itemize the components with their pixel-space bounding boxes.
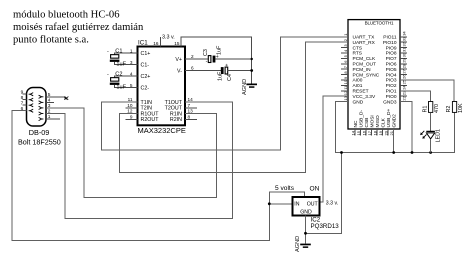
BLUETOOTH1 left pin numbers 1-13 — [343, 33, 348, 101]
svg-text:CSB: CSB — [364, 118, 370, 128]
wire module PIO3 to R2 — [400, 80, 454, 102]
svg-text:PIO6: PIO6 — [386, 62, 397, 68]
wire net DB9 pin2 to IC1 T1OUT — [46, 102, 233, 219]
capacitor C1 — [107, 48, 138, 67]
BLUETOOTH1 right pin stubs — [400, 37, 407, 96]
svg-text:3.3 v.: 3.3 v. — [326, 201, 338, 207]
BLUETOOTH1 left pin stubs — [341, 48, 348, 91]
svg-text:24: 24 — [402, 85, 407, 90]
connector DB-09 body — [27, 88, 47, 127]
svg-text:UART_RX: UART_RX — [353, 40, 376, 46]
wire net 3.3V regulator OUT to module VCC_3.3V — [320, 96, 349, 202]
svg-text:1uF: 1uF — [217, 45, 223, 55]
BLUETOOTH1 bottom pin name labels — [353, 109, 398, 128]
svg-text:3.3 v.: 3.3 v. — [162, 35, 175, 41]
wire GND2 bottom pin to rail — [393, 129, 395, 153]
junction dot V+ rail — [251, 58, 253, 60]
svg-text:RTS: RTS — [353, 51, 363, 57]
svg-text:9: 9 — [130, 115, 133, 120]
svg-text:10: 10 — [343, 79, 348, 84]
svg-text:18: 18 — [372, 130, 377, 135]
svg-text:IC1: IC1 — [138, 40, 148, 47]
svg-text:ON: ON — [310, 186, 320, 193]
svg-text:PCM_SYNC: PCM_SYNC — [353, 72, 380, 78]
wire regulator IN pin — [269, 203, 292, 205]
svg-text:PCM_IN: PCM_IN — [353, 67, 372, 73]
svg-text:28: 28 — [402, 63, 407, 68]
svg-text:CTS: CTS — [353, 45, 363, 51]
svg-text:GND: GND — [300, 209, 312, 215]
svg-text:11: 11 — [128, 97, 133, 102]
svg-text:moisés rafael gutiérrez damián: moisés rafael gutiérrez damián — [13, 22, 144, 33]
svg-text:PIO8: PIO8 — [386, 51, 397, 57]
svg-text:15: 15 — [356, 130, 361, 135]
svg-text:MISO: MISO — [375, 115, 381, 128]
svg-text:10K: 10K — [458, 103, 464, 113]
svg-text:C1: C1 — [115, 49, 122, 55]
svg-text:GND: GND — [353, 99, 364, 105]
svg-text:4: 4 — [130, 71, 133, 76]
svg-text:10: 10 — [127, 103, 133, 108]
svg-text:PCM_OUT: PCM_OUT — [353, 62, 377, 68]
svg-text:GND3: GND3 — [383, 99, 397, 105]
svg-text:PIO11: PIO11 — [383, 35, 397, 41]
svg-text:C2-: C2- — [141, 86, 150, 92]
svg-text:PIO4: PIO4 — [386, 72, 397, 78]
svg-text:C2+: C2+ — [141, 74, 151, 80]
svg-text:5: 5 — [130, 83, 133, 88]
svg-text:1uF: 1uF — [218, 71, 224, 81]
junction dot V- rail — [250, 69, 253, 72]
svg-text:20: 20 — [383, 130, 388, 135]
svg-text:27: 27 — [402, 68, 407, 73]
svg-text:7: 7 — [188, 103, 191, 108]
svg-text:16: 16 — [153, 41, 159, 46]
wire net 5 volts DB9 pin6 to regulator — [12, 111, 305, 241]
svg-text:1uF: 1uF — [116, 84, 126, 90]
DB-09 female contacts — [29, 93, 44, 121]
wire R1 to LED1 — [430, 112, 432, 132]
capacitor C4 on V- wire — [185, 64, 252, 82]
svg-text:AGND: AGND — [295, 236, 301, 252]
IC1 pin 16 VCC stub with 3.3 v. label — [159, 37, 161, 47]
svg-text:16: 16 — [361, 130, 366, 135]
capacitor C3 on V+ wire — [185, 45, 252, 65]
svg-text:8: 8 — [188, 115, 191, 120]
svg-text:PQ3RD13: PQ3RD13 — [311, 223, 340, 230]
svg-text:BLUETOOTH1: BLUETOOTH1 — [365, 21, 394, 26]
svg-text:22: 22 — [402, 95, 407, 100]
IC1 pin numbers — [127, 41, 194, 119]
svg-text:-: - — [107, 48, 109, 54]
svg-text:8: 8 — [21, 95, 24, 101]
IC1 pin name labels — [141, 51, 183, 123]
svg-text:UART_TX: UART_TX — [353, 35, 376, 41]
wire net UART_RX module pin2 to IC1 R1OUT — [120, 42, 348, 172]
svg-text:33: 33 — [402, 36, 407, 41]
module BLUETOOTH1 box — [348, 20, 400, 129]
DB-09 left pin stubs pins 9 8 7 — [22, 94, 26, 105]
wire DB9 pin1 stub — [46, 118, 60, 120]
svg-text:MAX3232CPE: MAX3232CPE — [138, 126, 186, 135]
svg-text:12: 12 — [127, 109, 133, 114]
wire DB9 pin4 stub — [46, 101, 54, 103]
svg-text:MOSI: MOSI — [369, 115, 375, 127]
svg-text:1: 1 — [130, 48, 133, 53]
wire IC2 GND pin down — [305, 216, 307, 244]
junction dot IC2 GND — [304, 232, 307, 235]
resistor R2 — [452, 102, 456, 113]
no-connect X mark — [64, 96, 68, 99]
svg-text:26: 26 — [402, 74, 407, 79]
svg-text:PIO3: PIO3 — [386, 78, 397, 84]
wire net UART_TX module pin1 to IC1 T1IN — [102, 37, 348, 150]
svg-text:PIO2: PIO2 — [386, 83, 397, 89]
svg-text:19: 19 — [378, 130, 383, 135]
svg-text:13: 13 — [188, 109, 194, 114]
svg-text:14: 14 — [350, 130, 355, 135]
BLUETOOTH1 right pin name labels — [383, 35, 397, 106]
wire IC1 pin15 GND rail to AGND — [181, 37, 252, 83]
wire module PIO1 to R1 — [400, 91, 431, 102]
svg-text:AI01: AI01 — [353, 83, 363, 89]
svg-text:29: 29 — [402, 58, 407, 63]
DB-09 pin numbers — [21, 90, 51, 121]
BLUETOOTH1 left pin name labels — [353, 35, 380, 106]
junction dot rail at 341.5 — [340, 151, 343, 154]
wire rail down to regulator GND and AGND — [306, 153, 342, 234]
junction dot 5V at regulator IN — [268, 202, 271, 205]
svg-text:32: 32 — [402, 41, 407, 46]
svg-text:RESET: RESET — [353, 89, 369, 95]
svg-text:Bolt 18F2550: Bolt 18F2550 — [18, 138, 61, 147]
BLUETOOTH1 right pin numbers 34-22 — [402, 31, 407, 101]
capacitor C2 — [107, 71, 138, 90]
svg-text:PCM_CLK: PCM_CLK — [353, 56, 376, 62]
svg-text:OUT: OUT — [307, 202, 319, 208]
svg-text:470: 470 — [434, 104, 440, 113]
op IC1 MAX3232CPE box — [138, 47, 186, 126]
wire net DB9 pin3 to IC1 R1IN — [46, 108, 217, 197]
svg-text:31: 31 — [402, 47, 407, 52]
ground symbol AGND below IC2 — [295, 236, 311, 252]
svg-text:R2OUT: R2OUT — [141, 117, 160, 123]
regulator IC2 box — [293, 197, 320, 216]
svg-text:21: 21 — [389, 130, 394, 135]
svg-text:PIO5: PIO5 — [386, 67, 397, 73]
junction dot rail at GND2 — [392, 151, 395, 154]
wire GND net module pin13 down to rail — [336, 102, 455, 153]
svg-text:-: - — [206, 59, 208, 65]
svg-text:C1-: C1- — [141, 63, 150, 69]
svg-text:PIO1: PIO1 — [386, 89, 397, 95]
svg-text:LED1: LED1 — [436, 129, 442, 143]
svg-text:punto flotante s.a.: punto flotante s.a. — [13, 35, 89, 46]
svg-text:2: 2 — [191, 54, 194, 59]
svg-text:C2: C2 — [115, 72, 122, 78]
svg-text:14: 14 — [188, 97, 194, 102]
BLUETOOTH1 bottom pin stubs — [355, 129, 388, 136]
wire DB9 pin5 stub with no-connect mark — [46, 97, 67, 100]
svg-text:C3: C3 — [203, 49, 209, 56]
svg-text:6: 6 — [191, 66, 194, 71]
svg-text:NC: NC — [353, 120, 359, 127]
svg-text:DB-09: DB-09 — [29, 128, 50, 137]
svg-text:7: 7 — [21, 101, 24, 107]
svg-text:USB_D-: USB_D- — [358, 110, 364, 128]
svg-text:PIO0: PIO0 — [386, 94, 397, 100]
svg-text:15: 15 — [174, 41, 180, 46]
IC1 unconnected stubs pins 10 9 7 8 — [126, 108, 197, 120]
svg-text:AGND: AGND — [242, 79, 248, 95]
svg-text:R2: R2 — [446, 106, 452, 113]
svg-text:R2IN: R2IN — [170, 117, 182, 123]
svg-text:VCC_3.3V: VCC_3.3V — [353, 94, 376, 100]
svg-text:12: 12 — [343, 90, 348, 95]
svg-text:USB_D+: USB_D+ — [386, 109, 392, 128]
junction dot rail at GND3 — [411, 151, 414, 154]
svg-text:1uF: 1uF — [116, 61, 126, 67]
svg-text:CLK: CLK — [380, 117, 386, 127]
wire GND3 right pin to rail — [400, 102, 412, 153]
svg-text:V-: V- — [177, 68, 182, 74]
svg-text:+: + — [224, 64, 230, 67]
svg-text:V+: V+ — [175, 57, 182, 63]
BLUETOOTH1 bottom pin numbers 14-21 — [350, 130, 394, 135]
svg-text:34: 34 — [402, 31, 407, 36]
svg-text:C1+: C1+ — [141, 51, 151, 57]
svg-text:AI00: AI00 — [353, 78, 363, 84]
ground symbol AGND right of C4 — [242, 79, 257, 95]
svg-text:módulo bluetooth HC-06: módulo bluetooth HC-06 — [13, 10, 120, 21]
svg-text:IN: IN — [294, 202, 299, 208]
svg-text:17: 17 — [367, 130, 372, 135]
svg-text:5 volts: 5 volts — [275, 185, 295, 192]
svg-text:PIO9: PIO9 — [386, 45, 397, 51]
junction dot rail at LED1 — [429, 151, 432, 154]
svg-text:-: - — [107, 71, 109, 77]
svg-text:3: 3 — [130, 60, 133, 65]
svg-text:9: 9 — [21, 90, 24, 96]
svg-text:GND2: GND2 — [391, 114, 397, 128]
svg-text:30: 30 — [402, 52, 407, 57]
diode LED1 — [420, 131, 435, 139]
svg-text:R1: R1 — [422, 106, 428, 113]
title text block — [13, 10, 144, 46]
resistor R1 — [429, 102, 433, 113]
svg-text:C4: C4 — [227, 74, 233, 81]
svg-text:PIO7: PIO7 — [386, 56, 397, 62]
wire LED1 to rail — [430, 139, 432, 153]
svg-text:PIO10: PIO10 — [383, 40, 397, 46]
